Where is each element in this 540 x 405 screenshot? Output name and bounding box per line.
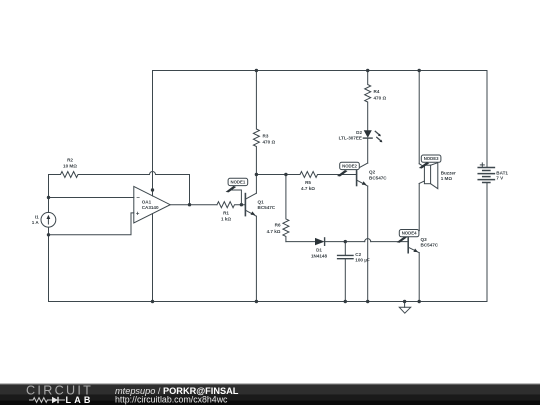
- node dot bottom rail opamp: [151, 300, 154, 303]
- svg-text:1 A: 1 A: [32, 220, 40, 225]
- resistor R6: [283, 175, 289, 242]
- battery BAT1 plates: [478, 168, 494, 183]
- battery plus sign: [480, 164, 484, 166]
- svg-text:1N4148: 1N4148: [311, 254, 328, 259]
- node dot bottom rail C2: [344, 300, 347, 303]
- resistor R5: [300, 172, 357, 178]
- wire opamp V- supply: [152, 214, 154, 302]
- svg-text:Q3: Q3: [421, 237, 428, 242]
- capacitor C2 top lead: [344, 242, 346, 256]
- svg-text:BC547C: BC547C: [369, 175, 387, 180]
- wire left vertical lower: [48, 175, 50, 213]
- svg-text:10 MΩ: 10 MΩ: [63, 164, 77, 169]
- wire R6 corner to D1: [286, 241, 315, 243]
- svg-text:4.7 kΩ: 4.7 kΩ: [267, 229, 281, 234]
- wire left vertical upper: [48, 227, 50, 301]
- transistor Q2 emitter arrow: [362, 181, 367, 185]
- wire Q1 emitter down: [255, 216, 257, 301]
- logo diode: [52, 397, 58, 403]
- svg-text:NODE1: NODE1: [230, 179, 245, 184]
- op-amp OA1 triangle: [134, 186, 170, 223]
- node dot R6 top: [284, 173, 287, 176]
- wire hop to Q3 base: [371, 241, 409, 243]
- wire Q2 collector to LED: [367, 138, 369, 163]
- wire Q3 collector to buzzer: [418, 184, 420, 231]
- node dot collector node1: [255, 173, 258, 176]
- node dot top rail R4: [366, 69, 369, 72]
- node dot C2 top: [344, 240, 347, 243]
- transistor Q3: [407, 231, 409, 253]
- svg-text:NODE3: NODE3: [424, 156, 439, 161]
- node dot opamp V+ pin: [151, 188, 154, 191]
- svg-text:R1: R1: [223, 211, 229, 216]
- svg-text:BC547C: BC547C: [421, 242, 439, 247]
- wire opamp minus input: [49, 197, 134, 199]
- svg-text:Q1: Q1: [258, 199, 265, 204]
- diode D1: [315, 238, 325, 245]
- buzzer BZ1 symbol: [419, 164, 424, 167]
- wire hop on R2 feedback over supply: [150, 172, 156, 175]
- footer bar: [0, 384, 540, 405]
- svg-text:R3: R3: [263, 134, 269, 139]
- svg-text:BC547C: BC547C: [258, 205, 276, 210]
- NODE3 flag: [419, 155, 441, 169]
- svg-text:LAB: LAB: [66, 395, 94, 405]
- svg-text:470 Ω: 470 Ω: [374, 95, 387, 100]
- transistor Q2: [356, 164, 358, 186]
- current source I1 arrowhead: [47, 215, 51, 219]
- logo resistor: [29, 398, 52, 403]
- resistor R2: [49, 172, 150, 178]
- svg-text:R4: R4: [374, 89, 380, 94]
- transistor Q3 emitter arrow: [413, 249, 418, 253]
- LED D2: [364, 130, 372, 138]
- NODE4 flag: [397, 230, 419, 243]
- svg-text:D2: D2: [356, 130, 362, 135]
- node dot plus return: [47, 233, 50, 236]
- svg-text:470 Ω: 470 Ω: [263, 140, 276, 145]
- node dot bottom rail Q1: [255, 300, 258, 303]
- NODE2 flag: [337, 162, 359, 176]
- battery BAT1 top lead: [486, 71, 488, 168]
- current source I1 arrow: [47, 218, 49, 224]
- capacitor C2 bottom lead: [344, 259, 346, 302]
- svg-text:1 MΩ: 1 MΩ: [441, 176, 453, 181]
- svg-text:NODE2: NODE2: [342, 163, 357, 168]
- wire node1 horizontal to R5: [256, 174, 300, 176]
- wire opamp plus input: [49, 213, 134, 235]
- svg-text:Buzzer: Buzzer: [441, 171, 456, 176]
- NODE1 flag: [226, 178, 248, 204]
- LED D2 emission arrows: [375, 131, 381, 141]
- node dot Q1 base: [240, 203, 243, 206]
- svg-text:+: +: [136, 211, 140, 217]
- wire Q1 collector up to node: [255, 175, 257, 194]
- ground: [404, 302, 406, 308]
- transistor Q1 emitter arrow: [251, 211, 256, 215]
- node dot top rail R3: [255, 69, 258, 72]
- node dot minus input: [47, 196, 50, 199]
- svg-text:R5: R5: [305, 180, 311, 185]
- node dot feedback output: [188, 203, 191, 206]
- resistor R4: [365, 71, 371, 131]
- svg-text:OA1: OA1: [142, 200, 152, 205]
- wire bottom rail: [49, 301, 488, 303]
- wire opamp V+ supply: [152, 71, 154, 197]
- svg-text:LTL-307EE: LTL-307EE: [339, 136, 362, 141]
- svg-text:R2: R2: [67, 158, 73, 163]
- wire opamp output: [170, 204, 217, 206]
- resistor R1: [217, 202, 245, 208]
- wire R2 to output corner: [156, 175, 190, 205]
- battery BAT1 bottom lead: [486, 183, 488, 302]
- node dot top rail buzzer: [418, 69, 421, 72]
- wire hop on D1 wire over Q2 emitter: [365, 239, 371, 242]
- wire buzzer top: [418, 71, 420, 164]
- svg-text:R6: R6: [275, 223, 281, 228]
- transistor Q1: [244, 194, 246, 216]
- svg-text:CA3140: CA3140: [142, 205, 159, 210]
- current source I1: [41, 212, 56, 227]
- svg-text:Q2: Q2: [369, 170, 376, 175]
- svg-text:−: −: [136, 196, 140, 202]
- node dot bottom rail ground: [403, 300, 406, 303]
- wire Q3 emitter down: [418, 253, 420, 302]
- wire top rail: [153, 70, 488, 72]
- wire Q2 emitter down: [367, 186, 369, 301]
- svg-text:D1: D1: [316, 248, 322, 253]
- svg-text:http://circuitlab.com/cx8h4wc: http://circuitlab.com/cx8h4wc: [115, 395, 228, 405]
- capacitor C2 plates: [338, 255, 353, 258]
- svg-text:I1: I1: [35, 214, 39, 219]
- node dot bottom rail Q3: [418, 300, 421, 303]
- svg-text:C2: C2: [355, 252, 361, 257]
- svg-text:7 V: 7 V: [496, 176, 504, 181]
- node dot bottom rail Q2: [366, 300, 369, 303]
- svg-text:4.7 kΩ: 4.7 kΩ: [301, 186, 315, 191]
- resistor R3: [253, 71, 259, 175]
- wire D1 cathode to C2 node: [325, 241, 365, 243]
- svg-text:NODE4: NODE4: [402, 231, 417, 236]
- svg-text:1 kΩ: 1 kΩ: [221, 217, 231, 222]
- svg-text:100 µF: 100 µF: [355, 258, 370, 263]
